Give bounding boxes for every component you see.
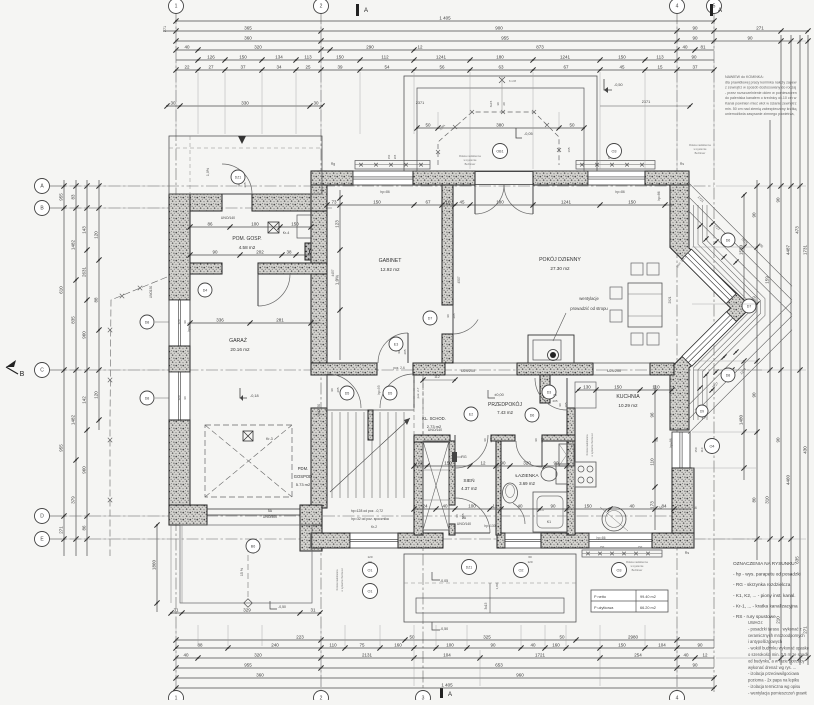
svg-text:1,0%: 1,0% [495, 582, 499, 589]
svg-text:E3: E3 [394, 343, 398, 347]
svg-text:325: 325 [483, 634, 491, 639]
svg-text:960: 960 [82, 331, 87, 339]
svg-text:D7: D7 [428, 317, 433, 321]
svg-text:112: 112 [381, 54, 389, 59]
svg-text:90: 90 [397, 350, 401, 354]
svg-text:120: 120 [94, 391, 99, 399]
svg-text:27: 27 [208, 64, 214, 69]
svg-text:90: 90 [692, 662, 698, 667]
svg-text:90: 90 [330, 388, 334, 392]
svg-text:90: 90 [534, 438, 538, 442]
svg-text:5: 5 [713, 4, 716, 10]
svg-text:120: 120 [177, 319, 181, 324]
svg-text:DZ1: DZ1 [466, 566, 473, 570]
svg-text:150: 150 [387, 154, 391, 159]
svg-text:hp=86: hp=86 [615, 190, 625, 194]
svg-text:150: 150 [444, 460, 452, 465]
svg-text:100: 100 [251, 221, 259, 226]
svg-text:960: 960 [516, 672, 524, 677]
svg-text:90: 90 [692, 25, 698, 30]
svg-text:hp=93: hp=93 [377, 385, 381, 394]
svg-text:4487: 4487 [786, 244, 791, 255]
svg-text:202: 202 [256, 249, 264, 254]
svg-text:210: 210 [776, 616, 781, 624]
svg-text:150: 150 [614, 384, 622, 389]
svg-text:90: 90 [692, 35, 698, 40]
svg-text:143: 143 [82, 226, 87, 234]
svg-text:- K1, K2, ... - piony inst. ka: - K1, K2, ... - piony inst. kanal. [733, 593, 796, 598]
svg-text:130: 130 [583, 384, 591, 389]
svg-text:D4: D4 [203, 289, 208, 293]
svg-text:OB1: OB1 [496, 150, 503, 154]
svg-text:205: 205 [243, 182, 247, 187]
svg-text:271: 271 [163, 26, 167, 32]
svg-text:UNO/140: UNO/140 [221, 216, 235, 220]
svg-text:- izolacja termiczna wg opisu: - izolacja termiczna wg opisu [748, 684, 800, 689]
svg-text:- RG - skrzynka rozdzielcza: - RG - skrzynka rozdzielcza [733, 582, 791, 587]
svg-text:379: 379 [71, 496, 76, 504]
svg-text:320: 320 [254, 44, 262, 49]
svg-text:1,0%: 1,0% [335, 275, 340, 285]
svg-text:1721: 1721 [535, 652, 546, 657]
svg-text:67: 67 [563, 64, 569, 69]
svg-text:281: 281 [276, 317, 284, 322]
svg-text:960: 960 [82, 466, 87, 474]
svg-text:40: 40 [629, 503, 635, 508]
svg-text:o szerokości min. 0,5 m ze spa: o szerokości min. 0,5 m ze spadk [748, 652, 809, 657]
svg-text:12: 12 [492, 503, 498, 508]
svg-text:67: 67 [425, 199, 431, 204]
svg-text:113: 113 [304, 54, 312, 59]
svg-text:- hp - wys. parapetu od posadz: - hp - wys. parapetu od posadzki [733, 572, 801, 577]
svg-text:90: 90 [558, 403, 562, 407]
svg-text:D5: D5 [388, 392, 393, 396]
svg-text:653: 653 [495, 662, 503, 667]
svg-text:-0,50: -0,50 [614, 83, 623, 87]
svg-text:E2: E2 [469, 413, 473, 417]
svg-text:4: 4 [676, 696, 679, 701]
svg-text:165: 165 [567, 147, 571, 152]
svg-text:22: 22 [184, 64, 190, 69]
svg-text:hp=86: hp=86 [657, 191, 661, 200]
svg-text:UNO/140: UNO/140 [457, 522, 471, 526]
svg-text:205: 205 [564, 402, 568, 407]
svg-text:hp=86: hp=86 [597, 536, 606, 540]
svg-text:Rs: Rs [680, 162, 684, 166]
svg-text:90: 90 [550, 503, 556, 508]
svg-text:B6: B6 [251, 545, 255, 549]
svg-text:B: B [20, 371, 25, 378]
svg-text:310: 310 [765, 496, 770, 504]
svg-text:7.43 m2: 7.43 m2 [497, 410, 513, 415]
svg-text:6x15: 6x15 [489, 100, 493, 107]
svg-text:hp=86: hp=86 [380, 190, 390, 194]
svg-text:1 405: 1 405 [439, 15, 451, 20]
svg-text:50: 50 [559, 634, 565, 639]
svg-text:90: 90 [368, 560, 372, 564]
svg-text:10: 10 [445, 199, 451, 204]
svg-text:15: 15 [657, 64, 663, 69]
svg-text:UNO150: UNO150 [317, 404, 321, 417]
svg-text:205: 205 [552, 399, 557, 403]
svg-text:1,0%: 1,0% [206, 167, 210, 176]
svg-text:4.37 m2: 4.37 m2 [461, 486, 477, 491]
svg-text:90: 90 [691, 54, 697, 59]
svg-text:610: 610 [59, 286, 64, 294]
svg-text:40: 40 [183, 652, 189, 657]
svg-text:-0,05: -0,05 [524, 132, 533, 136]
svg-text:90: 90 [446, 314, 450, 318]
svg-text:205: 205 [461, 513, 465, 518]
svg-text:50: 50 [425, 122, 431, 127]
svg-text:1482: 1482 [71, 414, 76, 425]
svg-text:poz. 2-6: poz. 2-6 [393, 366, 405, 370]
svg-text:2: 2 [320, 696, 323, 701]
svg-text:150: 150 [628, 199, 636, 204]
svg-text:66.20 m2: 66.20 m2 [640, 606, 656, 610]
svg-text:90: 90 [212, 249, 218, 254]
svg-text:i antypoślizgowych: i antypoślizgowych [748, 639, 783, 644]
svg-text:365: 365 [244, 25, 252, 30]
svg-text:od budynku, a w razie potrzeby: od budynku, a w razie potrzeby [748, 658, 806, 663]
svg-text:12: 12 [480, 460, 486, 465]
svg-text:1480: 1480 [739, 414, 744, 425]
svg-text:90: 90 [483, 438, 487, 442]
svg-text:- wokół budynku wykonać opaskę: - wokół budynku wykonać opaskę [748, 646, 810, 651]
svg-text:ceramicznych mrozoodpornych: ceramicznych mrozoodpornych [748, 633, 805, 638]
svg-text:37: 37 [692, 64, 698, 69]
svg-text:60: 60 [528, 555, 532, 559]
svg-text:min. 50 cm nad ziemią zabezpie: min. 50 cm nad ziemią zabezpieczony krat… [725, 107, 797, 111]
svg-text:90: 90 [455, 514, 459, 518]
svg-text:254: 254 [634, 652, 642, 657]
svg-text:27.30 m2: 27.30 m2 [550, 266, 570, 271]
svg-text:99.40 m2: 99.40 m2 [640, 595, 656, 599]
svg-text:GABINET: GABINET [379, 258, 403, 264]
svg-text:-0,50: -0,50 [278, 605, 286, 609]
svg-text:112: 112 [434, 375, 440, 379]
svg-text:do paleniska kanałem o średnic: do paleniska kanałem o średnicy ok.10 cm… [725, 96, 797, 100]
svg-text:A: A [448, 692, 452, 698]
svg-text:955: 955 [244, 662, 252, 667]
svg-text:180: 180 [496, 54, 504, 59]
svg-text:GARAŻ: GARAŻ [229, 337, 247, 344]
svg-text:O3: O3 [611, 150, 616, 154]
svg-text:ŁAZIENKA: ŁAZIENKA [515, 473, 539, 479]
svg-text:180: 180 [496, 199, 504, 204]
svg-text:90: 90 [183, 320, 187, 324]
svg-text:160: 160 [552, 642, 560, 647]
svg-text:30: 30 [170, 100, 176, 105]
svg-text:KL. SCHOD.: KL. SCHOD. [422, 416, 446, 421]
svg-text:- Kr-1, ... - kratka kanalizac: - Kr-1, ... - kratka kanalizacyjna [733, 603, 798, 608]
svg-text:336: 336 [216, 317, 224, 322]
svg-text:wykonać drenaż wg rys. ...: wykonać drenaż wg rys. ... [748, 665, 796, 670]
svg-text:1: 1 [175, 696, 178, 701]
svg-text:473: 473 [795, 226, 800, 234]
svg-text:120: 120 [94, 231, 99, 239]
svg-text:D7: D7 [747, 305, 752, 309]
svg-text:320: 320 [523, 460, 531, 465]
svg-text:205: 205 [393, 154, 397, 159]
svg-text:w systemie: w systemie [464, 158, 477, 162]
svg-text:4: 4 [676, 4, 679, 10]
svg-text:K1: K1 [547, 520, 551, 524]
svg-text:SIEŃ: SIEŃ [463, 477, 475, 484]
svg-text:O1: O1 [367, 590, 372, 594]
svg-text:75: 75 [359, 642, 365, 647]
svg-text:D8: D8 [145, 397, 150, 401]
svg-text:320: 320 [254, 652, 262, 657]
svg-text:330: 330 [241, 100, 249, 105]
svg-text:2631: 2631 [82, 266, 87, 277]
svg-text:uniemożliwia zasysanie zimnego: uniemożliwia zasysanie zimnego powietrza… [725, 112, 795, 116]
svg-text:UNO/300: UNO/300 [263, 515, 277, 519]
svg-text:prowadzić od stropu: prowadzić od stropu [570, 306, 608, 311]
svg-text:205: 205 [452, 313, 456, 318]
svg-text:5.73 m2: 5.73 m2 [296, 482, 311, 487]
svg-text:54: 54 [384, 64, 390, 69]
svg-text:160: 160 [394, 642, 402, 647]
svg-text:O4: O4 [709, 445, 714, 449]
svg-text:Roleta nadokienna: Roleta nadokienna [586, 434, 589, 455]
svg-text:3x15: 3x15 [484, 602, 488, 609]
svg-text:120: 120 [367, 555, 372, 559]
svg-text:360: 360 [256, 672, 264, 677]
svg-text:hp=86: hp=86 [669, 438, 673, 447]
svg-text:329: 329 [243, 607, 251, 612]
svg-text:15 %: 15 % [240, 567, 244, 576]
svg-text:D: D [40, 514, 44, 520]
svg-text:- posadzki tarasu , wykonać z: - posadzki tarasu , wykonać z [748, 626, 802, 631]
svg-text:POM. GOSP.: POM. GOSP. [232, 236, 261, 242]
svg-text:84: 84 [661, 503, 667, 508]
svg-text:D5: D5 [345, 392, 350, 396]
svg-text:hp=130: hp=130 [484, 524, 496, 528]
svg-text:46: 46 [693, 506, 697, 510]
svg-text:U24/200: U24/200 [607, 369, 621, 373]
svg-text:1241: 1241 [560, 54, 571, 59]
svg-text:- wentylacja pomieszczeń grawi: - wentylacja pomieszczeń grawit [748, 690, 808, 695]
svg-text:120: 120 [527, 560, 532, 564]
svg-text:126: 126 [207, 54, 215, 59]
svg-text:Kr-3: Kr-3 [266, 437, 273, 441]
svg-text:90: 90 [500, 460, 506, 465]
svg-text:hp=32 od poz. spocznika: hp=32 od poz. spocznika [351, 517, 389, 521]
svg-text:38: 38 [286, 249, 292, 254]
svg-text:271: 271 [756, 25, 764, 30]
svg-text:150: 150 [618, 54, 626, 59]
svg-text:110: 110 [650, 458, 655, 466]
svg-text:30: 30 [313, 100, 319, 105]
svg-text:2: 2 [320, 4, 323, 10]
svg-text:955: 955 [59, 444, 64, 452]
svg-text:2371: 2371 [642, 100, 650, 104]
svg-text:1580: 1580 [739, 244, 744, 255]
svg-text:dla prawidłowej pracy kominka: dla prawidłowej pracy kominka należy zap… [725, 80, 797, 84]
svg-text:205: 205 [540, 437, 544, 442]
svg-text:123: 123 [335, 220, 340, 228]
svg-text:1241: 1241 [561, 199, 572, 204]
svg-text:1241: 1241 [436, 54, 447, 59]
svg-text:w systemie BeClever: w systemie BeClever [591, 433, 594, 457]
svg-text:UNO150: UNO150 [149, 286, 153, 299]
svg-text:O3: O3 [616, 569, 621, 573]
svg-text:hp=128 od poz. -0,72: hp=128 od poz. -0,72 [351, 509, 383, 513]
svg-text:6 x=8: 6 x=8 [509, 79, 516, 83]
svg-text:873: 873 [536, 44, 544, 49]
svg-text:P netto: P netto [594, 595, 606, 599]
svg-text:O1: O1 [367, 569, 372, 573]
svg-text:150: 150 [373, 199, 381, 204]
svg-text:240: 240 [271, 642, 279, 647]
svg-text:12: 12 [702, 652, 708, 657]
svg-text:w systemie: w systemie [694, 147, 707, 151]
svg-text:100: 100 [446, 642, 454, 647]
svg-text:45: 45 [619, 64, 625, 69]
svg-text:40: 40 [530, 642, 536, 647]
svg-text:205: 205 [336, 387, 340, 392]
svg-text:150: 150 [291, 221, 299, 226]
svg-text:150: 150 [600, 545, 605, 549]
svg-text:110: 110 [652, 384, 660, 389]
svg-text:150: 150 [694, 447, 698, 452]
svg-text:290: 290 [366, 44, 374, 49]
svg-text:Roleta nadokienna: Roleta nadokienna [626, 560, 648, 564]
svg-text:D8: D8 [726, 374, 731, 378]
svg-text:Kr-4: Kr-4 [283, 231, 290, 235]
svg-text:D3: D3 [547, 391, 552, 395]
svg-text:80: 80 [752, 497, 757, 503]
svg-text:24: 24 [422, 503, 428, 508]
svg-text:UWAGI:: UWAGI: [748, 620, 763, 625]
svg-text:1860: 1860 [152, 559, 157, 570]
svg-text:Kanał powinien mieć wlot w ści: Kanał powinien mieć wlot w ścianie zewnę… [725, 102, 797, 106]
svg-text:72: 72 [417, 460, 423, 465]
svg-text:1482: 1482 [71, 239, 76, 250]
svg-text:D6: D6 [726, 239, 731, 243]
svg-text:223: 223 [296, 634, 304, 639]
svg-text:120: 120 [177, 395, 181, 400]
svg-text:90: 90 [776, 437, 781, 443]
svg-text:73: 73 [331, 199, 337, 204]
svg-text:56: 56 [439, 64, 445, 69]
svg-text:150: 150 [584, 503, 592, 508]
svg-text:RG: RG [461, 455, 467, 459]
svg-text:Rs: Rs [685, 551, 690, 555]
svg-text:63: 63 [498, 64, 504, 69]
svg-text:30: 30 [496, 102, 500, 106]
svg-text:poz. 2-7: poz. 2-7 [416, 387, 420, 398]
svg-text:25: 25 [305, 64, 311, 69]
svg-text:205: 205 [403, 349, 407, 354]
svg-text:2980: 2980 [628, 634, 639, 639]
svg-text:81: 81 [700, 44, 706, 49]
svg-text:955: 955 [59, 193, 64, 201]
svg-text:Roleta nadokienna: Roleta nadokienna [459, 154, 481, 158]
svg-text:150: 150 [618, 642, 626, 647]
svg-text:173: 173 [650, 501, 655, 509]
svg-text:POKÓJ DZIENNY: POKÓJ DZIENNY [539, 256, 581, 263]
svg-text:12.92 m2: 12.92 m2 [380, 267, 400, 272]
svg-text:430: 430 [803, 446, 808, 454]
svg-text:1 405: 1 405 [441, 682, 453, 687]
svg-text:955: 955 [501, 35, 509, 40]
svg-text:1731: 1731 [803, 244, 808, 255]
svg-text:150: 150 [239, 54, 247, 59]
svg-text:pozioma - 2x papa na lepiku: pozioma - 2x papa na lepiku [748, 678, 799, 683]
svg-text:96: 96 [650, 412, 655, 418]
svg-text:39: 39 [337, 64, 343, 69]
svg-text:- izolacja przeciwwilgociowa: - izolacja przeciwwilgociowa [748, 671, 800, 676]
svg-text:Kr-2: Kr-2 [371, 525, 377, 529]
svg-text:D6: D6 [530, 414, 535, 418]
svg-text:A: A [718, 8, 722, 14]
svg-text:104: 104 [658, 642, 666, 647]
svg-text:10.29 m2: 10.29 m2 [618, 403, 638, 408]
svg-text:w systemie: w systemie [631, 564, 644, 568]
svg-text:w systemie BeClever: w systemie BeClever [341, 568, 344, 592]
svg-text:80: 80 [553, 393, 557, 397]
svg-text:40: 40 [683, 652, 689, 657]
svg-text:KUCHNIA: KUCHNIA [616, 394, 640, 400]
svg-text:104: 104 [443, 652, 451, 657]
svg-text:20: 20 [502, 102, 506, 106]
svg-text:GOSPOD: GOSPOD [294, 474, 312, 479]
svg-text:z zewnątrz w sposób dostosowan: z zewnątrz w sposób dostosowany do rodza… [725, 86, 796, 90]
svg-text:40: 40 [517, 503, 523, 508]
svg-text:90: 90 [752, 392, 757, 398]
svg-text:900: 900 [495, 25, 503, 30]
svg-text:90: 90 [553, 460, 559, 465]
svg-text:142: 142 [82, 396, 87, 404]
svg-text:5A: 5A [268, 509, 273, 513]
svg-text:271: 271 [59, 526, 64, 534]
svg-text:90: 90 [752, 212, 757, 218]
svg-text:134: 134 [275, 54, 283, 59]
svg-text:100: 100 [468, 503, 476, 508]
svg-text:2921: 2921 [668, 296, 672, 303]
svg-text:3: 3 [422, 696, 425, 701]
svg-text:40: 40 [682, 44, 688, 49]
svg-text:113: 113 [656, 54, 664, 59]
svg-text:DZ1: DZ1 [235, 176, 242, 180]
svg-text:90: 90 [747, 35, 753, 40]
svg-text:20.16 m2: 20.16 m2 [230, 347, 250, 352]
svg-text:U24/200: U24/200 [461, 369, 475, 373]
svg-text:12: 12 [417, 44, 423, 49]
svg-text:83: 83 [71, 194, 76, 200]
svg-text:40: 40 [184, 44, 190, 49]
svg-text:wentylacje: wentylacje [579, 296, 599, 301]
svg-text:360: 360 [244, 35, 252, 40]
svg-text:Roleta nadokienna: Roleta nadokienna [689, 143, 711, 147]
svg-text:±0,00: ±0,00 [494, 393, 503, 397]
svg-text:- RS - rury spustowe: - RS - rury spustowe [733, 614, 776, 619]
svg-text:2371: 2371 [416, 101, 424, 105]
svg-text:NAWIEW do KOMINKA:: NAWIEW do KOMINKA: [725, 75, 764, 79]
svg-text:-0,05: -0,05 [440, 579, 448, 583]
svg-text:2.73 m2: 2.73 m2 [427, 424, 442, 429]
svg-text:- przez rozszczelnienie okien: - przez rozszczelnienie okien w pomieszc… [725, 91, 797, 95]
svg-text:4.58 m2: 4.58 m2 [239, 245, 256, 250]
svg-text:37: 37 [240, 64, 246, 69]
svg-text:BeClever: BeClever [632, 568, 643, 572]
svg-text:3.69 m2: 3.69 m2 [519, 481, 535, 486]
svg-text:4460: 4460 [786, 474, 791, 485]
svg-text:380: 380 [496, 122, 504, 127]
svg-text:90: 90 [237, 183, 241, 187]
